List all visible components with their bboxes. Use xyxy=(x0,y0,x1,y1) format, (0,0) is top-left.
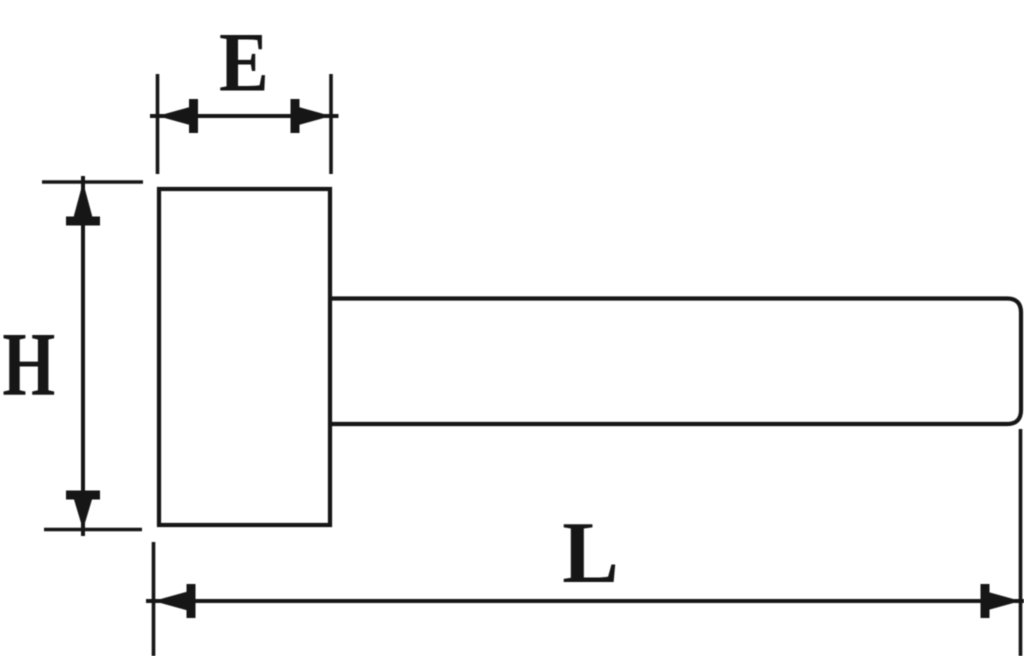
dimension H : top arrowhead xyxy=(73,182,94,221)
dimension L : left arrowhead xyxy=(154,591,190,611)
dimension H : top extension line xyxy=(42,180,143,184)
mallet handle (rounded right end) xyxy=(330,299,1021,425)
svg-text:H: H xyxy=(2,315,55,416)
dimension L : right extension line xyxy=(1019,429,1023,656)
dimension H : bottom arrowhead xyxy=(73,495,94,530)
dimension E : right extension line xyxy=(329,74,333,174)
dimension H : bottom arrow tick xyxy=(66,491,100,500)
dimension L : right arrow tick xyxy=(981,584,990,618)
dimension H : bottom extension line xyxy=(44,528,142,532)
dimension L : right arrowhead xyxy=(985,591,1021,611)
dimension L : left extension line xyxy=(152,542,156,656)
dimension L : left arrow tick xyxy=(187,584,196,618)
dimension H : top arrow tick xyxy=(66,217,100,226)
dimension E : dimension line xyxy=(150,114,339,118)
dimension E : left extension line xyxy=(156,74,160,174)
dimension E : right arrowhead xyxy=(295,106,331,126)
dimension E : left arrowhead xyxy=(158,106,194,126)
dimension L : dimension line xyxy=(146,599,1024,603)
dimension E : right arrow tick xyxy=(291,99,300,133)
dimension E : left arrow tick xyxy=(189,99,198,133)
svg-text:E: E xyxy=(219,16,269,109)
dimension H : dimension line xyxy=(81,176,85,536)
svg-text:L: L xyxy=(562,504,619,602)
mallet head (rectangle) xyxy=(159,189,330,525)
